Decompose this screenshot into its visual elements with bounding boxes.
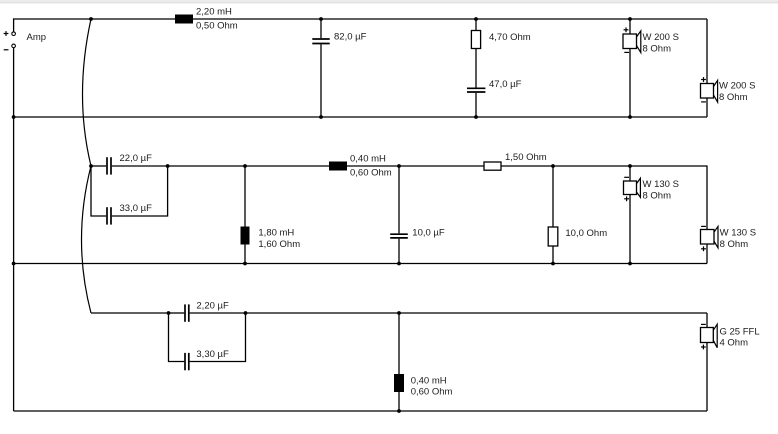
wire: midrange ground rail y=263.5	[14, 263, 707, 265]
svg-text:1,80 mH: 1,80 mH	[258, 228, 294, 239]
node: junction C6/C7 right	[244, 311, 248, 315]
node: junction top rail / curve	[89, 17, 93, 21]
wire: tweeter ground rail y=411	[14, 410, 707, 412]
wire: R2 to R3 node	[501, 165, 553, 167]
wire: tweeter rail to right	[246, 312, 708, 314]
capacitor C4 33uF parallel branch	[91, 166, 168, 225]
svg-text:Amp: Amp	[27, 32, 47, 43]
svg-text:W 130 S: W 130 S	[720, 227, 756, 238]
capacitor C1 82uF	[312, 19, 329, 117]
wire: left ground rail from - terminal down	[13, 48, 15, 411]
svg-text:47,0 µF: 47,0 µF	[489, 79, 522, 90]
node: junction tweeter rail / L4	[397, 311, 401, 315]
svg-text:W 200 S: W 200 S	[719, 81, 755, 92]
resistor R2 1.50 Ohm	[484, 162, 501, 170]
svg-text:8 Ohm: 8 Ohm	[720, 239, 749, 250]
speaker LS4 W 130 S	[701, 226, 719, 263]
capacitor C2 47uF	[467, 88, 485, 117]
svg-text:0,60 Ohm: 0,60 Ohm	[350, 168, 392, 179]
wire: L3 to C5 node	[347, 165, 399, 167]
wire: C5 node to R2	[399, 165, 484, 167]
wire: curved feed from top rail to midrange section	[83, 19, 92, 166]
svg-text:4,70 Ohm: 4,70 Ohm	[489, 32, 531, 43]
svg-text:0,40 mH: 0,40 mH	[411, 376, 447, 387]
node: junction mid rail / L2	[243, 164, 247, 168]
node: mid ground / L2	[243, 262, 247, 266]
wire: top input rail y=19	[14, 18, 707, 20]
speaker LS2 W 200 S	[701, 77, 718, 117]
node: junction mid rail / LS3	[628, 164, 632, 168]
capacitor C7 3.30uF parallel branch	[169, 313, 246, 370]
inductor L2 1.80mH shunt	[241, 166, 250, 264]
svg-text:2,20 mH: 2,20 mH	[196, 7, 232, 18]
node: ground rail / LS1	[628, 115, 632, 119]
node: junction top rail / R1	[474, 17, 478, 21]
capacitor C3 22uF	[91, 157, 168, 174]
wire: from + terminal up to top rail	[13, 19, 15, 32]
node: mid ground / C5	[397, 262, 401, 266]
node: junction top rail / speaker LS1	[628, 17, 632, 21]
svg-text:4 Ohm: 4 Ohm	[720, 338, 749, 349]
wire: curved feed from midrange node to tweeter section	[82, 166, 92, 313]
wire: tweeter feed from curve to C6	[91, 312, 169, 314]
svg-text:2,20 µF: 2,20 µF	[196, 301, 229, 312]
resistor R3 10 Ohm shunt	[548, 166, 558, 264]
svg-text:W 200 S: W 200 S	[643, 32, 679, 43]
inductor L4 0.40mH shunt	[394, 313, 404, 411]
inductor L1 2.20mH	[175, 15, 193, 24]
svg-text:10,0 µF: 10,0 µF	[412, 228, 445, 239]
node Amp + terminal	[4, 31, 16, 36]
node: junction mid rail / C5	[397, 164, 401, 168]
node: midrange input junction	[89, 164, 93, 168]
svg-text:82,0 µF: 82,0 µF	[334, 31, 367, 42]
svg-text:1,60 Ohm: 1,60 Ohm	[258, 239, 300, 250]
svg-text:W 130 S: W 130 S	[643, 179, 679, 190]
node: mid ground / LS3	[628, 262, 632, 266]
wire: mid rail to L3	[245, 165, 329, 167]
node: junction C6/C7 left	[167, 311, 171, 315]
svg-text:0,50 Ohm: 0,50 Ohm	[196, 21, 238, 32]
wire: mid rail right drop to LS4	[630, 166, 707, 230]
node: ground rail / C2	[474, 115, 478, 119]
node: ground rail / C1	[319, 115, 323, 119]
svg-text:8 Ohm: 8 Ohm	[719, 92, 748, 103]
resistor R1 4.70 Ohm	[471, 19, 480, 88]
speaker LS3 W 130 S	[624, 166, 641, 264]
wire: top rail right drop to LS2	[706, 19, 708, 84]
wire: mid rail to L2 branch	[168, 165, 245, 167]
speaker LS5 G 25 FFL	[701, 324, 718, 411]
wire: woofer ground rail y=117	[14, 116, 707, 118]
node: mid ground / R3	[551, 262, 555, 266]
node: junction top rail / C1	[319, 17, 323, 21]
svg-text:10,0 Ohm: 10,0 Ohm	[565, 228, 607, 239]
svg-text:G 25 FFL: G 25 FFL	[720, 326, 760, 337]
node: ground rail / left rail	[12, 115, 16, 119]
speaker LS1 W 200 S	[623, 19, 641, 117]
svg-text:8 Ohm: 8 Ohm	[643, 191, 672, 202]
svg-text:3,30 µF: 3,30 µF	[196, 349, 229, 360]
svg-text:1,50 Ohm: 1,50 Ohm	[505, 152, 547, 163]
node: tweeter ground / L4	[397, 409, 401, 413]
wire: R3 node to LS3 node	[553, 165, 630, 167]
window top gray strip	[0, 0, 778, 2]
svg-text:0,40 mH: 0,40 mH	[350, 154, 386, 165]
node: junction mid rail / R3	[551, 164, 555, 168]
capacitor C6 2.20uF	[169, 304, 246, 321]
svg-text:8 Ohm: 8 Ohm	[643, 43, 672, 54]
node Amp - terminal	[4, 44, 16, 50]
node: junction after C3/C4	[166, 164, 170, 168]
inductor L3 0.40mH	[329, 162, 347, 171]
capacitor C5 10uF shunt	[390, 166, 408, 264]
svg-text:22,0 µF: 22,0 µF	[120, 153, 153, 164]
node: mid ground / left rail	[12, 262, 16, 266]
wire: tweeter rail right drop to LS5	[706, 313, 708, 328]
svg-text:33,0 µF: 33,0 µF	[120, 203, 153, 214]
svg-text:0,60 Ohm: 0,60 Ohm	[411, 386, 453, 397]
